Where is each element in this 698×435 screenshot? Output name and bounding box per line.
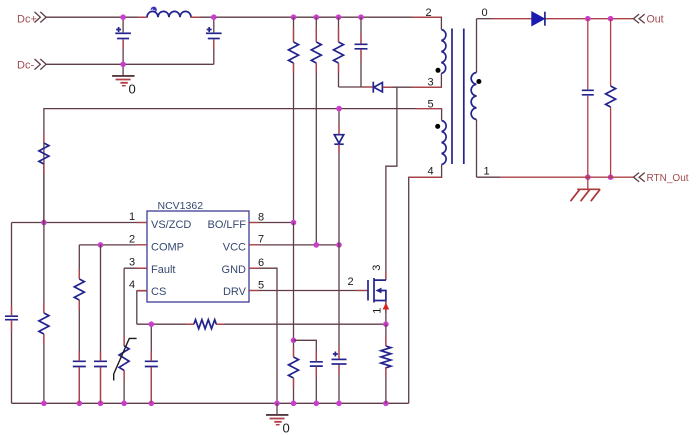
capacitor C1 (input bulk, polarized) [115, 17, 131, 64]
junction R1 top rail [291, 14, 297, 20]
junction C10 on Out rail [585, 16, 591, 22]
svg-text:0: 0 [482, 7, 488, 19]
junction C2 top rail [211, 14, 217, 20]
junction C6 on pin 2 wire [98, 242, 104, 248]
node Dc+ input connector [17, 12, 46, 25]
svg-text:2: 2 [129, 234, 135, 246]
svg-text:8: 8 [258, 211, 264, 223]
svg-text:0: 0 [283, 421, 290, 435]
junction dot aux rail / D3 [336, 106, 342, 112]
svg-text:1: 1 [129, 211, 135, 223]
resistor R8 (BO/LFF divider lower) [289, 223, 299, 404]
diode D2 (output rectifier) [532, 12, 545, 26]
junction R2 top rail [314, 14, 320, 20]
junction C7 on ground bus [336, 401, 342, 407]
wire CS node line [137, 323, 194, 325]
wire aux winding pin 5 rail [44, 109, 442, 223]
svg-text:Dc+: Dc+ [17, 13, 37, 25]
junction R5 on ground bus [41, 401, 47, 407]
junction R4/R5 on pin 1 wire [41, 220, 47, 226]
capacitor C10 (output) [582, 19, 594, 178]
capacitor C6 (COMP parallel) [94, 245, 107, 403]
ground 0 (input) [112, 64, 136, 96]
svg-text:VCC: VCC [223, 241, 246, 253]
resistor R6 (COMP series) [74, 245, 84, 361]
wire pin 7 VCC [249, 244, 339, 246]
junction C6 on ground bus [98, 401, 104, 407]
svg-text:2: 2 [426, 7, 432, 19]
resistor R2 (top rail to VCC startup) [311, 17, 321, 245]
junction dot CS node [149, 321, 155, 327]
op-amp/controller U1 NCV1362 box [147, 200, 249, 302]
transistor Q1 (N-MOSFET) [368, 278, 386, 303]
wire pin 8 BO/LFF [249, 222, 294, 224]
svg-text:2: 2 [348, 276, 354, 288]
transformer T1 core [452, 29, 464, 165]
svg-text:3: 3 [428, 77, 434, 89]
wire snubber bottom to diode D1 [339, 86, 374, 88]
wire pin 6 GND [249, 268, 277, 403]
wire top rail Dc+ to transformer pin 2 [46, 17, 441, 29]
junction R10 on Out rail [608, 16, 614, 22]
junction dot BO divider tap [291, 338, 297, 344]
svg-text:GND: GND [222, 264, 247, 276]
svg-text:5: 5 [258, 279, 264, 291]
diode D1 (clamp, horizontal) [373, 82, 382, 93]
resistor R5 (ZCD divider lower) [39, 223, 49, 404]
wire red pin stubs at Q1 [356, 272, 386, 314]
transformer T1 primary winding (pins 2-3) [436, 30, 446, 74]
junction C3 top rail [358, 14, 364, 20]
ground chassis (output RTN) [571, 177, 601, 201]
junction C10 on RTN rail [585, 174, 591, 180]
wire secondary bottom RTN rail [477, 176, 501, 178]
wire ground bus [12, 402, 409, 404]
junction R3 top rail [336, 14, 342, 20]
current arrow at Q1 source (red) [383, 303, 390, 310]
junction C1 Dc- rail [120, 62, 126, 68]
resistor R7 (CS series, horizontal) [194, 320, 216, 329]
capacitor C7 (VCC, polarized) [332, 245, 347, 403]
wire secondary top to output [477, 18, 493, 20]
junction R8 on ground bus [291, 401, 297, 407]
wire Dc- rail [46, 63, 214, 65]
junction GND pin 6 on ground bus [274, 401, 280, 407]
capacitor C9 (BO filter) [294, 340, 323, 403]
svg-text:VS/ZCD: VS/ZCD [151, 219, 191, 231]
junction R2 on pin 7 wire [314, 242, 320, 248]
wire pin 2 COMP [79, 244, 147, 246]
capacitor C8 (CS filter) [145, 324, 158, 403]
junction R1 on pin 8 wire [291, 220, 297, 226]
inductor L1 [147, 7, 191, 17]
capacitor C5 (COMP series) [73, 361, 86, 403]
junction R9 on ground bus [383, 401, 389, 407]
wire pin 5 DRV to MOSFET gate [249, 290, 368, 292]
capacitor C4 (VS/ZCD filter) [5, 223, 18, 404]
transformer T1 secondary winding (pins 0-1) [471, 19, 481, 178]
svg-text:4: 4 [129, 279, 135, 291]
svg-text:0: 0 [129, 82, 136, 97]
svg-text:RTN_Out: RTN_Out [647, 173, 689, 184]
svg-text:COMP: COMP [151, 241, 184, 253]
diode D3 (VCC charge, vertical) [334, 109, 343, 245]
node Dc- input connector [17, 59, 46, 72]
junction C9 on ground bus [314, 401, 320, 407]
thermistor RV1 on Fault pin [114, 268, 137, 403]
resistor R9 (current sense) [381, 324, 391, 403]
svg-text:NCV1362: NCV1362 [158, 200, 204, 212]
wire diode D1 anode to transformer pin 3 [383, 73, 442, 87]
wire pin 3 Fault [124, 267, 147, 269]
wire red component pin leads [12, 17, 393, 403]
svg-text:3: 3 [371, 265, 383, 271]
wire transformer pin 3 node down to MOSFET drain [386, 87, 397, 280]
svg-text:CS: CS [151, 286, 166, 298]
junction C1 top rail [120, 14, 126, 20]
resistor R3 (snubber) [334, 17, 344, 87]
resistor R1 (top rail to BO/LFF divider) [289, 17, 299, 222]
junction D3/C7 on pin 7 wire [336, 242, 342, 248]
svg-text:DRV: DRV [223, 286, 247, 298]
svg-text:7: 7 [258, 234, 264, 246]
wire transformer pin 4 down to ground bus [409, 165, 442, 404]
junction RV1 on ground bus [121, 401, 127, 407]
capacitor C2 (after filter, polarized) [206, 17, 222, 64]
ground 0 (main) [266, 403, 290, 435]
svg-text:3: 3 [129, 257, 135, 269]
node Out connector [634, 14, 664, 26]
wire red pin stubs at transformer [409, 17, 442, 177]
svg-text:4: 4 [428, 166, 434, 178]
wire Q1 source down to CS node [385, 301, 387, 325]
svg-text:6: 6 [258, 257, 264, 269]
resistor R10 (output load) [606, 19, 616, 178]
junction R10 on RTN rail [608, 174, 614, 180]
junction C5 on ground bus [77, 401, 83, 407]
svg-text:Out: Out [647, 14, 664, 26]
wire CS line to MOSFET source [216, 323, 386, 325]
resistor R4 (ZCD divider upper) [39, 143, 49, 223]
capacitor C3 (snubber) [355, 17, 368, 87]
wire pin 1 VS/ZCD [12, 222, 148, 224]
transformer T1 aux winding (pins 5-4) [435, 121, 446, 165]
junction C8 on ground bus [149, 401, 155, 407]
svg-text:Fault: Fault [151, 264, 175, 276]
wire pin 4 CS [137, 291, 147, 324]
svg-text:BO/LFF: BO/LFF [207, 219, 246, 231]
svg-text:5: 5 [428, 99, 434, 111]
svg-text:1: 1 [371, 308, 383, 314]
junction dot Q1 source / sense [383, 321, 389, 327]
svg-text:1: 1 [484, 166, 490, 178]
node RTN_Out connector [634, 173, 689, 184]
svg-text:Dc-: Dc- [17, 60, 34, 72]
